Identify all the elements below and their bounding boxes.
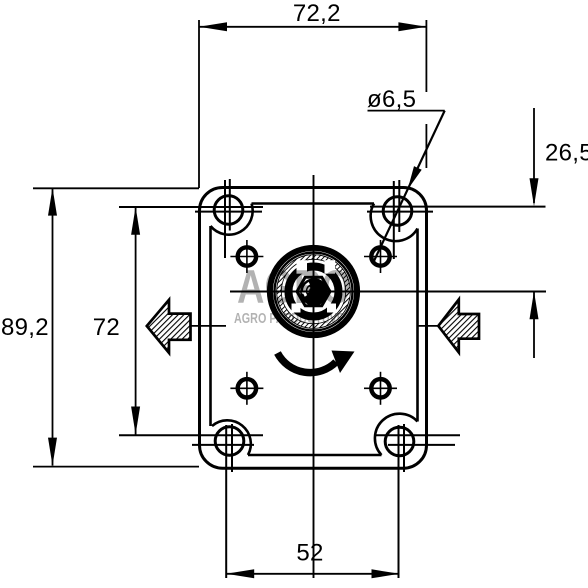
svg-text:26,5: 26,5 bbox=[545, 140, 588, 167]
svg-text:52: 52 bbox=[296, 540, 323, 567]
svg-text:AGRO: AGRO bbox=[237, 260, 351, 313]
svg-text:72,2: 72,2 bbox=[293, 0, 341, 27]
svg-text:ø6,5: ø6,5 bbox=[367, 86, 416, 113]
svg-text:89,2: 89,2 bbox=[1, 314, 49, 341]
svg-text:72: 72 bbox=[93, 314, 120, 341]
svg-text:AGRO PARDUOTUVĖ: AGRO PARDUOTUVĖ bbox=[234, 310, 344, 327]
